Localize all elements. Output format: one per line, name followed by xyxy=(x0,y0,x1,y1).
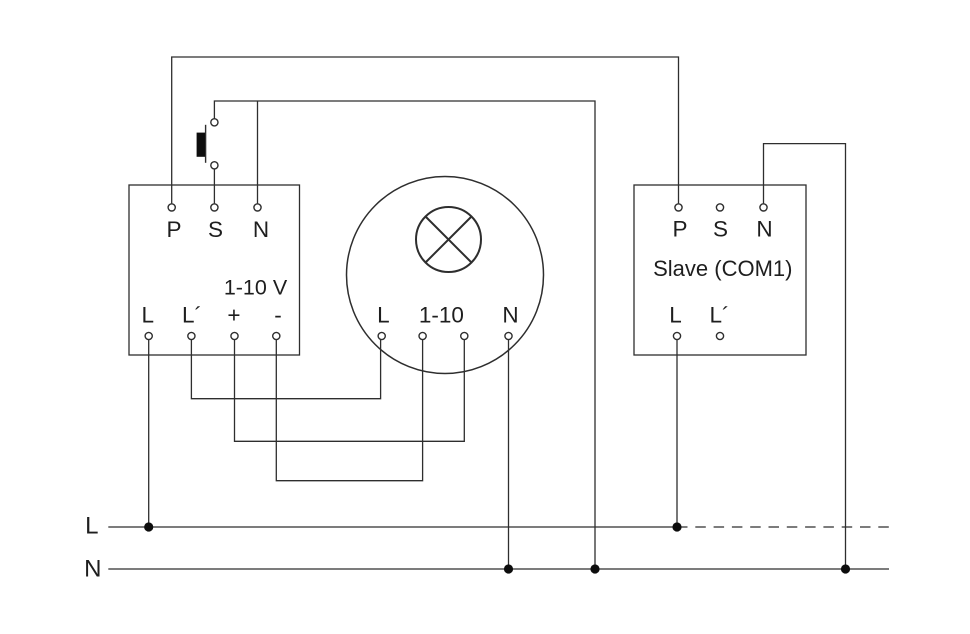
terminal N lamp xyxy=(505,332,512,339)
svg-text:L: L xyxy=(141,303,154,328)
terminal S slave xyxy=(716,204,723,211)
terminal 1-10 left lamp xyxy=(419,332,426,339)
terminal P slave xyxy=(675,204,682,211)
svg-text:L: L xyxy=(377,303,390,328)
push button S1 bottom contact xyxy=(211,162,218,169)
wire L rail solid xyxy=(108,526,677,528)
wire master L down to L rail xyxy=(148,340,150,527)
junction dot slave N on N rail xyxy=(841,564,850,573)
svg-text:L´: L´ xyxy=(182,303,202,328)
svg-text:-: - xyxy=(274,303,282,328)
terminal N slave xyxy=(760,204,767,211)
svg-text:S: S xyxy=(208,217,223,242)
svg-text:L´: L´ xyxy=(709,303,729,328)
svg-text:Slave (COM1): Slave (COM1) xyxy=(653,256,792,281)
terminal 1-10 right lamp xyxy=(461,332,468,339)
slave unit box xyxy=(634,185,806,355)
wire button feed (button top up, across, down to N rail) xyxy=(214,101,595,569)
svg-text:P: P xyxy=(672,217,687,242)
wire branch to master N terminal xyxy=(257,101,259,203)
wire button bottom to S terminal xyxy=(213,169,215,204)
terminal - master xyxy=(273,332,280,339)
wire slave N up, across, down to N rail xyxy=(764,144,846,569)
wire slave L down to L rail xyxy=(676,340,678,527)
lamp outer circle (luminaire with 1-10V ballast) xyxy=(347,177,544,374)
wire master + to lamp 1-10 right terminal xyxy=(235,340,465,442)
svg-text:N: N xyxy=(84,556,101,583)
svg-text:1-10: 1-10 xyxy=(419,303,464,328)
terminal + master xyxy=(231,332,238,339)
terminal L master xyxy=(145,332,152,339)
svg-text:+: + xyxy=(227,303,240,328)
wire master - to lamp 1-10 left terminal xyxy=(276,340,422,481)
terminal L' slave xyxy=(716,332,723,339)
svg-text:L: L xyxy=(669,303,682,328)
junction dot master L on L rail xyxy=(144,522,153,531)
junction dot lamp N on N rail xyxy=(504,564,513,573)
wire L rail dashed continuation xyxy=(677,526,889,528)
junction dot slave L on L rail xyxy=(672,522,681,531)
svg-text:N: N xyxy=(756,217,772,242)
lamp symbol cross xyxy=(426,217,472,263)
svg-text:1-10 V: 1-10 V xyxy=(224,276,288,300)
terminal L' master xyxy=(188,332,195,339)
svg-text:L: L xyxy=(85,512,98,539)
push button S1 contact bar xyxy=(205,125,207,163)
push button S1 actuator xyxy=(197,133,205,157)
terminal S master xyxy=(211,204,218,211)
svg-text:N: N xyxy=(502,303,518,328)
terminal L slave xyxy=(673,332,680,339)
wire lamp N down to N rail xyxy=(508,340,510,569)
terminal L lamp xyxy=(378,332,385,339)
svg-text:N: N xyxy=(253,217,269,242)
svg-text:S: S xyxy=(713,217,728,242)
master control unit box xyxy=(129,185,300,355)
push button S1 top contact xyxy=(211,119,218,126)
terminal N master xyxy=(254,204,261,211)
svg-text:P: P xyxy=(166,217,181,242)
lamp symbol circle xyxy=(416,207,481,272)
wire N rail xyxy=(108,568,889,570)
wire master L' to lamp L xyxy=(191,340,380,399)
terminal P master xyxy=(168,204,175,211)
junction dot button feed on N rail xyxy=(590,564,599,573)
wire top run P-to-P (master P up, across, down to slave P) xyxy=(172,57,679,203)
